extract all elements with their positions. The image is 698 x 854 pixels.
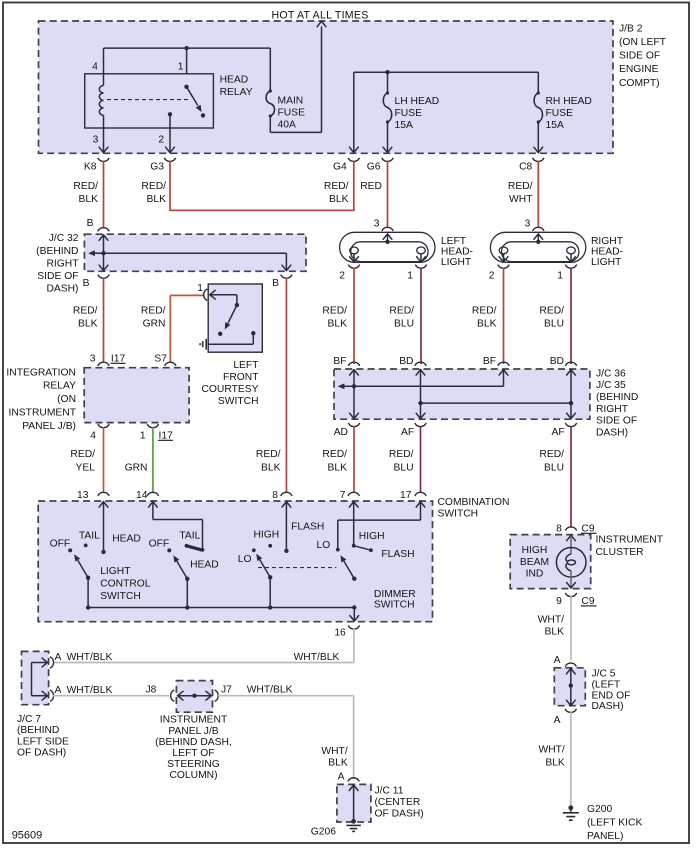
wire hot feed arrow to HOT AT ALL TIMES xyxy=(321,27,323,133)
lamp RIGHT HEADLIGHT xyxy=(490,232,585,262)
svg-text:LEFT: LEFT xyxy=(441,236,467,247)
svg-text:BLK: BLK xyxy=(261,462,281,473)
wire WHT/BLK J/C 5 to G200 xyxy=(570,712,572,806)
svg-text:SIDE OF: SIDE OF xyxy=(619,51,660,62)
svg-text:J7: J7 xyxy=(221,685,232,696)
svg-text:AF: AF xyxy=(552,427,565,438)
connector 2 out of left headlight xyxy=(348,265,359,269)
wire rail to G4 xyxy=(353,72,355,152)
svg-text:DASH): DASH) xyxy=(592,701,624,712)
fuse MAIN FUSE 40A xyxy=(269,48,271,91)
svg-text:COLUMN): COLUMN) xyxy=(169,770,217,781)
svg-text:B: B xyxy=(83,278,90,289)
svg-text:WHT/BLK: WHT/BLK xyxy=(67,652,113,663)
svg-text:(BEHIND: (BEHIND xyxy=(596,392,638,403)
svg-text:INSTRUMENT: INSTRUMENT xyxy=(160,715,228,726)
svg-text:BLK: BLK xyxy=(147,194,167,205)
svg-text:RIGHT: RIGHT xyxy=(46,258,79,269)
light control switch pole 1 wiring xyxy=(99,502,108,507)
svg-text:COMBINATION: COMBINATION xyxy=(438,497,510,508)
connector AD out of J/C 36 xyxy=(348,423,359,427)
svg-text:RED/: RED/ xyxy=(256,449,281,460)
svg-text:14: 14 xyxy=(136,490,148,501)
svg-text:3: 3 xyxy=(374,218,380,229)
svg-text:2: 2 xyxy=(339,271,345,282)
connector G6 xyxy=(382,158,393,162)
node junction at LH fuse xyxy=(385,70,389,74)
svg-text:7: 7 xyxy=(340,490,346,501)
svg-text:WHT: WHT xyxy=(509,194,533,205)
svg-text:TAIL: TAIL xyxy=(179,531,200,542)
ground G200 xyxy=(568,805,573,810)
svg-text:(BEHIND DASH,: (BEHIND DASH, xyxy=(155,737,232,748)
svg-text:LO: LO xyxy=(317,540,331,551)
svg-text:RED/: RED/ xyxy=(389,305,414,316)
wire WHT/BLK J/C 7 to J8 xyxy=(53,695,169,697)
svg-text:SWITCH: SWITCH xyxy=(100,591,141,602)
svg-text:RED/: RED/ xyxy=(322,449,347,460)
svg-text:CLUSTER: CLUSTER xyxy=(596,547,644,558)
connector 4 out of integration relay xyxy=(98,424,109,428)
wire J/C 32 internal bus xyxy=(99,235,108,240)
contact LO xyxy=(252,548,256,552)
svg-text:(ON LEFT: (ON LEFT xyxy=(619,37,667,48)
relay contact pin 2 xyxy=(168,112,172,116)
svg-text:RED/: RED/ xyxy=(472,305,497,316)
wire K8 RED/BLK down to J/C 32 xyxy=(103,161,105,229)
svg-text:1: 1 xyxy=(140,430,146,441)
connector A out of J/C 7 top xyxy=(50,657,54,668)
junction connector J/C 36 / J/C 35 box xyxy=(334,369,590,419)
svg-text:J8: J8 xyxy=(146,685,157,696)
svg-text:(LEFT KICK: (LEFT KICK xyxy=(587,818,642,829)
svg-text:LEFT OF: LEFT OF xyxy=(172,748,214,759)
svg-text:17: 17 xyxy=(400,490,412,501)
svg-text:RED/: RED/ xyxy=(539,449,564,460)
fuse RH HEAD FUSE 15A xyxy=(537,72,539,93)
wire RED/BLU AF to instrument cluster 8 xyxy=(570,426,572,527)
fuse LH HEAD FUSE 15A xyxy=(387,72,389,93)
wire G3 RED/BLK elbow to G4 xyxy=(169,161,171,211)
light control switch lever 1 xyxy=(86,576,90,580)
courtesy switch contact xyxy=(218,332,222,336)
svg-text:A: A xyxy=(55,685,62,696)
svg-text:BLU: BLU xyxy=(544,318,564,329)
svg-text:1: 1 xyxy=(178,61,184,72)
svg-text:G6: G6 xyxy=(367,161,381,172)
svg-text:LIGHT: LIGHT xyxy=(100,566,131,577)
svg-text:SWITCH: SWITCH xyxy=(374,599,415,610)
svg-text:FLASH: FLASH xyxy=(381,549,414,560)
svg-text:TAIL: TAIL xyxy=(79,530,100,541)
svg-text:RIGHT: RIGHT xyxy=(591,236,624,247)
contact HIGH xyxy=(268,544,272,548)
J/C 11 internal wire xyxy=(349,785,358,790)
connector A out of J/C 5 xyxy=(565,709,576,713)
svg-text:INTEGRATION: INTEGRATION xyxy=(6,367,76,378)
svg-text:PANEL J/B: PANEL J/B xyxy=(168,726,218,737)
svg-text:ENGINE: ENGINE xyxy=(619,64,659,75)
wire C8 RED/WHT down to right headlight xyxy=(537,161,539,228)
svg-text:I17: I17 xyxy=(111,353,126,364)
J/C 5 internal wire xyxy=(566,669,575,674)
connector AF out of J/C 35 xyxy=(565,423,576,427)
wire RED/BLK J/C32 to combination switch 8 xyxy=(285,278,287,493)
svg-text:RED/: RED/ xyxy=(508,181,533,192)
svg-text:FUSE: FUSE xyxy=(395,108,423,119)
svg-text:2: 2 xyxy=(489,271,495,282)
wire WHT/BLK cluster to J/C 5 xyxy=(570,596,572,661)
svg-text:40A: 40A xyxy=(278,119,296,130)
svg-text:G3: G3 xyxy=(150,161,164,172)
junction block J/B 2 box xyxy=(39,21,614,153)
svg-text:SWITCH: SWITCH xyxy=(218,396,259,407)
svg-text:WHT/: WHT/ xyxy=(538,745,564,756)
wire top rail in J/B 2 xyxy=(104,47,271,49)
svg-text:BLK: BLK xyxy=(477,318,497,329)
contact TAIL plate pole 2 xyxy=(187,546,203,550)
svg-text:RED/: RED/ xyxy=(73,305,98,316)
svg-text:BLK: BLK xyxy=(545,627,565,638)
svg-text:8: 8 xyxy=(272,490,278,501)
dimmer switch lever 1 xyxy=(268,575,272,579)
svg-text:3: 3 xyxy=(93,134,99,145)
svg-text:BLU: BLU xyxy=(394,318,414,329)
svg-text:1: 1 xyxy=(557,271,563,282)
connector 9 / C9 out of instrument cluster xyxy=(565,593,576,597)
connector K8 xyxy=(98,158,109,162)
svg-text:COMPT): COMPT) xyxy=(619,78,660,89)
svg-text:RED/: RED/ xyxy=(70,449,95,460)
svg-text:SIDE OF: SIDE OF xyxy=(596,416,637,427)
svg-text:HEAD-: HEAD- xyxy=(441,247,473,258)
svg-text:3: 3 xyxy=(525,218,531,229)
wire GRN integration relay pin 1 to combination switch 14 xyxy=(152,427,154,492)
svg-text:BLK: BLK xyxy=(328,318,348,329)
svg-text:LIGHT: LIGHT xyxy=(441,257,472,268)
courtesy switch internal wiring xyxy=(210,290,215,299)
wire RED/GRN courtesy switch to S7 xyxy=(169,295,171,362)
svg-text:WHT/: WHT/ xyxy=(538,615,564,626)
svg-text:SIDE OF: SIDE OF xyxy=(37,271,78,282)
connector G3 xyxy=(164,158,175,162)
wire RED/BLK left headlight 2 to BF xyxy=(353,268,355,364)
connector 3 into right headlight xyxy=(533,227,544,231)
svg-text:C9: C9 xyxy=(581,523,594,534)
wire RED/BLU AF to combination switch 17 xyxy=(420,426,422,493)
relay mechanical link (dashed) xyxy=(107,99,190,101)
wire WHT/BLK combination switch 16 row xyxy=(353,629,355,663)
svg-text:BLU: BLU xyxy=(393,462,413,473)
svg-text:WHT/BLK: WHT/BLK xyxy=(294,652,340,663)
svg-text:BLK: BLK xyxy=(328,462,348,473)
svg-text:INSTRUMENT: INSTRUMENT xyxy=(596,535,664,546)
contact TAIL xyxy=(84,544,88,548)
svg-text:RED/: RED/ xyxy=(324,181,349,192)
svg-text:B: B xyxy=(87,218,94,229)
svg-text:J/C 11: J/C 11 xyxy=(375,785,404,796)
svg-text:LIGHT: LIGHT xyxy=(591,257,622,268)
svg-text:K8: K8 xyxy=(84,161,97,172)
svg-text:RED: RED xyxy=(360,181,382,192)
svg-text:HIGH: HIGH xyxy=(522,545,548,556)
svg-text:BEAM: BEAM xyxy=(520,557,549,568)
connector 2 out of right headlight xyxy=(498,265,509,269)
connector B out of J/C 32 right xyxy=(281,275,292,279)
svg-text:OF DASH): OF DASH) xyxy=(375,809,424,820)
contact OFF xyxy=(68,548,72,552)
svg-text:1: 1 xyxy=(197,283,203,294)
wire RED/BLK AD to combination switch 7 xyxy=(353,426,355,493)
svg-text:(LEFT: (LEFT xyxy=(592,679,621,690)
svg-text:OFF: OFF xyxy=(149,539,170,550)
svg-text:13: 13 xyxy=(77,490,89,501)
svg-text:BLU: BLU xyxy=(544,462,564,473)
svg-text:A: A xyxy=(554,655,561,666)
junction connector J/C 5 box xyxy=(554,668,585,706)
svg-text:4: 4 xyxy=(92,61,98,72)
connector A out of J/C 7 bottom xyxy=(50,690,54,701)
svg-text:J/C 32: J/C 32 xyxy=(49,233,79,244)
svg-text:STEERING: STEERING xyxy=(167,759,220,770)
svg-text:LH HEAD: LH HEAD xyxy=(395,96,440,107)
wire main fuse to hot arrow elbow xyxy=(269,116,271,132)
svg-text:J/B 2: J/B 2 xyxy=(619,23,643,34)
svg-text:COURTESY: COURTESY xyxy=(201,384,258,395)
svg-text:A: A xyxy=(554,715,561,726)
J/C 7 internal wire xyxy=(31,663,33,696)
connector 1 out of left headlight xyxy=(415,265,426,269)
svg-text:C9: C9 xyxy=(581,596,594,607)
svg-text:CONTROL: CONTROL xyxy=(100,578,151,589)
svg-text:(BEHIND: (BEHIND xyxy=(17,725,59,736)
svg-text:OFF: OFF xyxy=(50,538,71,549)
lamp HIGH BEAM IND xyxy=(567,535,576,540)
svg-text:DASH): DASH) xyxy=(46,284,78,295)
courtesy switch lever xyxy=(228,305,237,323)
svg-text:S7: S7 xyxy=(154,353,167,364)
dimmer switch lever 2 xyxy=(352,577,356,581)
svg-text:PANEL): PANEL) xyxy=(587,831,623,842)
svg-text:BLK: BLK xyxy=(545,758,565,769)
svg-text:(BEHIND: (BEHIND xyxy=(36,246,78,257)
wire RED/YEL integration relay pin 4 to combination switch 13 xyxy=(103,427,105,492)
instrument panel J/B internal wire xyxy=(178,691,183,700)
svg-text:9: 9 xyxy=(556,596,562,607)
wire combination switch common bus to 16 xyxy=(88,607,354,609)
svg-text:A: A xyxy=(338,772,345,783)
lamp LEFT HEADLIGHT xyxy=(340,232,435,262)
wire G6 RED down to left headlight xyxy=(387,161,389,228)
svg-text:INSTRUMENT: INSTRUMENT xyxy=(9,408,77,419)
svg-text:FUSE: FUSE xyxy=(278,107,306,118)
switch LEFT FRONT COURTESY SWITCH box xyxy=(208,284,262,352)
connector 16 out of combination switch xyxy=(348,625,359,629)
svg-text:RED/: RED/ xyxy=(73,181,98,192)
svg-text:1: 1 xyxy=(407,271,413,282)
connector 1 / I17 out of integration relay xyxy=(147,424,158,428)
wire RED/BLK J/C32 to integration relay pin 3 xyxy=(103,278,105,363)
svg-text:RED/: RED/ xyxy=(141,181,166,192)
svg-text:HEAD: HEAD xyxy=(112,534,141,545)
svg-text:HIGH: HIGH xyxy=(254,530,280,541)
svg-text:FRONT: FRONT xyxy=(223,372,259,383)
svg-text:J/C 7: J/C 7 xyxy=(17,714,41,725)
svg-text:15A: 15A xyxy=(546,120,564,131)
svg-text:HEAD: HEAD xyxy=(190,560,219,571)
connector B out of J/C 32 left xyxy=(98,275,109,279)
svg-text:HEAD: HEAD xyxy=(220,75,249,86)
connector G4 xyxy=(348,158,359,162)
svg-text:HOT AT ALL TIMES: HOT AT ALL TIMES xyxy=(271,9,368,21)
relay HEAD RELAY box xyxy=(85,74,214,128)
svg-text:J/C 35: J/C 35 xyxy=(596,380,626,391)
svg-text:RED/: RED/ xyxy=(141,305,166,316)
svg-text:15A: 15A xyxy=(395,120,413,131)
svg-text:J/C 5: J/C 5 xyxy=(592,669,616,680)
svg-text:WHT/BLK: WHT/BLK xyxy=(67,685,113,696)
svg-text:HIGH: HIGH xyxy=(359,531,385,542)
svg-text:BLK: BLK xyxy=(329,194,349,205)
svg-text:G4: G4 xyxy=(333,161,347,172)
svg-text:G200: G200 xyxy=(587,804,612,815)
svg-text:FUSE: FUSE xyxy=(546,108,574,119)
contact LO pole 2 xyxy=(336,548,340,552)
svg-text:BLK: BLK xyxy=(328,757,348,768)
dimmer switch pole 2 wiring xyxy=(349,502,358,507)
svg-text:B: B xyxy=(272,278,279,289)
svg-text:RIGHT: RIGHT xyxy=(596,404,629,415)
relay contact (resting) xyxy=(201,113,205,117)
svg-text:BD: BD xyxy=(550,356,564,367)
connector AF out of J/C 36 xyxy=(415,423,426,427)
svg-text:WHT/BLK: WHT/BLK xyxy=(247,685,293,696)
wire RED/BLK right headlight 2 to BF xyxy=(503,268,505,364)
wire WHT/BLK J7 to J/C 11 xyxy=(218,695,354,697)
svg-text:RED/: RED/ xyxy=(322,305,347,316)
svg-text:BF: BF xyxy=(333,356,346,367)
svg-text:3: 3 xyxy=(90,353,96,364)
dimmer switch pole 1 wiring xyxy=(282,502,291,507)
svg-text:RELAY: RELAY xyxy=(43,381,76,392)
svg-text:MAIN: MAIN xyxy=(278,95,304,106)
svg-text:PANEL J/B): PANEL J/B) xyxy=(22,421,76,432)
wire RED/BLU left headlight 1 to BD xyxy=(420,268,422,364)
node junction at relay pin 1 xyxy=(184,46,188,50)
relay switch lever xyxy=(184,85,188,89)
svg-text:GRN: GRN xyxy=(143,318,166,329)
svg-text:HEAD-: HEAD- xyxy=(591,247,623,258)
svg-text:(CENTER: (CENTER xyxy=(375,797,421,808)
mechanical link dimmer (dashed) xyxy=(258,567,336,569)
svg-text:RH HEAD: RH HEAD xyxy=(546,96,592,107)
wire combination switch 17 elbow to LO contact xyxy=(416,502,425,507)
svg-text:BD: BD xyxy=(399,356,413,367)
svg-text:2: 2 xyxy=(158,134,164,145)
light control switch lever 2 xyxy=(185,577,189,581)
svg-text:J/C 36: J/C 36 xyxy=(596,368,626,379)
svg-text:FLASH: FLASH xyxy=(291,522,324,533)
svg-text:IND: IND xyxy=(526,568,544,579)
relay coil xyxy=(103,74,105,86)
relay INTEGRATION RELAY box xyxy=(84,368,189,423)
connector 3 into left headlight xyxy=(382,227,393,231)
svg-text:WHT/: WHT/ xyxy=(321,746,347,757)
junction connector J/C 7 box xyxy=(22,651,49,704)
svg-text:GRN: GRN xyxy=(125,462,148,473)
svg-text:95609: 95609 xyxy=(12,830,43,842)
svg-text:DASH): DASH) xyxy=(596,427,628,438)
svg-text:RED/: RED/ xyxy=(389,449,414,460)
wire relay pin 3 to K8 xyxy=(103,128,105,152)
svg-text:A: A xyxy=(55,652,62,663)
junction connector J/C 32 box xyxy=(84,234,306,271)
svg-text:AF: AF xyxy=(401,427,414,438)
svg-text:DIMMER: DIMMER xyxy=(374,589,416,600)
svg-text:I17: I17 xyxy=(159,430,174,441)
wire LH/RH fuse rail xyxy=(354,71,539,73)
svg-text:LEFT: LEFT xyxy=(233,360,259,371)
connector C8 xyxy=(533,158,544,162)
svg-text:BLK: BLK xyxy=(79,194,99,205)
svg-text:RELAY: RELAY xyxy=(220,87,253,98)
contact OFF pole 2 xyxy=(167,548,171,552)
svg-text:BLK: BLK xyxy=(78,318,98,329)
svg-text:C8: C8 xyxy=(519,161,532,172)
switch COMBINATION SWITCH box xyxy=(38,501,432,622)
svg-text:16: 16 xyxy=(334,628,346,639)
junction connector J/C 11 box xyxy=(337,784,371,822)
svg-text:OF DASH): OF DASH) xyxy=(17,748,66,759)
ground chassis symbol at courtesy switch xyxy=(205,339,207,350)
J/C 36 internal bus wires xyxy=(350,370,359,375)
svg-text:LO: LO xyxy=(238,554,252,565)
cluster INSTRUMENT CLUSTER box xyxy=(510,535,591,589)
svg-text:SWITCH: SWITCH xyxy=(438,509,479,520)
svg-text:LEFT SIDE: LEFT SIDE xyxy=(17,736,69,747)
ground G206 xyxy=(346,824,360,826)
connector 1 out of right headlight xyxy=(565,265,576,269)
svg-text:YEL: YEL xyxy=(76,462,96,473)
svg-text:8: 8 xyxy=(556,523,562,534)
connector J7 xyxy=(215,690,219,701)
light control switch pole 2 wiring xyxy=(149,502,158,507)
svg-text:BF: BF xyxy=(483,356,496,367)
svg-text:RED/: RED/ xyxy=(539,305,564,316)
contact FLASH pole 2 xyxy=(369,548,373,552)
svg-text:END OF: END OF xyxy=(592,690,631,701)
wire RED/BLU right headlight 1 to BD xyxy=(570,268,572,364)
svg-text:G206: G206 xyxy=(311,827,336,838)
svg-text:4: 4 xyxy=(90,430,96,441)
junction block INSTRUMENT PANEL J/B box xyxy=(176,681,212,713)
svg-text:AD: AD xyxy=(334,427,348,438)
wire relay pin 2 to G3 xyxy=(169,114,171,152)
courtesy switch ground contact xyxy=(251,331,255,335)
svg-text:(ON: (ON xyxy=(57,394,76,405)
